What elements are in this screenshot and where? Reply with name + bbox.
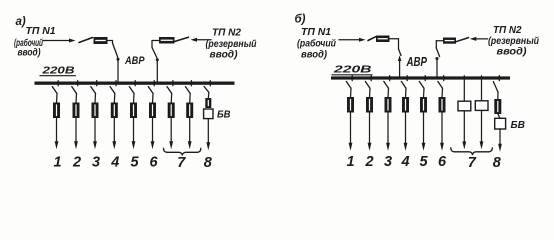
svg-text:АВР: АВР	[124, 55, 145, 67]
svg-text:5: 5	[419, 154, 428, 170]
feeder 1 switch (b)	[346, 76, 352, 98]
svg-text:2: 2	[72, 155, 81, 171]
svg-text:ввод): ввод)	[210, 50, 239, 61]
wire TP1 feed arrow	[43, 39, 76, 43]
wire feeder 8 drop (b)	[498, 129, 502, 152]
wire feeder drop (b)	[422, 112, 426, 151]
svg-text:ТП N1: ТП N1	[26, 26, 56, 37]
feeder 8 switch	[204, 81, 210, 99]
wire feeder drop	[169, 118, 173, 150]
wire feeder drop (b)	[349, 112, 353, 151]
feeder 6 switch	[148, 81, 154, 103]
feeder fuse F2 (b)	[367, 98, 373, 113]
feeder 8 fuse	[206, 99, 211, 108]
wire TP2 feed arrow (b)	[470, 37, 488, 41]
feeder 8 fuse (b)	[495, 100, 501, 114]
svg-text:(резервный: (резервный	[206, 39, 257, 50]
wire FU1 to AVR contact (b)	[389, 39, 399, 49]
svg-text:БВ: БВ	[217, 109, 231, 121]
svg-text:220В: 220В	[333, 64, 373, 76]
wire feeder drop (b)	[404, 112, 408, 151]
feeder 2 switch (b)	[365, 76, 371, 98]
svg-text:3: 3	[384, 154, 392, 170]
svg-text:АВР: АВР	[406, 55, 428, 69]
feeder 6 switch (b)	[438, 76, 444, 98]
wire AVR left to bus (b)	[399, 61, 401, 77]
svg-text:4: 4	[110, 155, 119, 171]
svg-text:2: 2	[364, 154, 373, 170]
svg-text:4: 4	[400, 154, 409, 170]
wire feeder drop	[132, 118, 136, 150]
bus bar 220V (b)	[331, 76, 510, 79]
svg-text:6: 6	[438, 154, 447, 170]
feeder 2 switch	[72, 81, 78, 103]
svg-text:ввод): ввод)	[18, 48, 42, 59]
breaker BV square	[204, 109, 213, 119]
wire fuse to BV (b)	[498, 114, 500, 119]
svg-text:1: 1	[346, 154, 354, 170]
svg-text:7: 7	[468, 155, 477, 171]
node TP1 label	[14, 26, 56, 59]
wire feeder drop	[112, 118, 116, 150]
net 220V label (b)	[332, 64, 372, 76]
feeder fuse F8	[187, 103, 193, 118]
feeder 7a contactor wire (b)	[463, 76, 465, 101]
svg-text:ТП N2: ТП N2	[493, 25, 522, 36]
wire feeder drop (b)	[368, 112, 372, 151]
node TP2 label (b)	[488, 25, 539, 58]
switch blade QS2 (b)	[456, 38, 469, 42]
contactor 7b (b)	[475, 101, 488, 111]
fuse FU1	[94, 38, 107, 44]
svg-text:ввод): ввод)	[301, 50, 328, 61]
feeder fuse F7	[168, 103, 174, 118]
feeder fuse F3 (b)	[385, 98, 391, 113]
wire AVR left to bus	[117, 59, 119, 82]
feeder fuse F4 (b)	[403, 98, 409, 113]
feeder fuse F2	[73, 103, 79, 118]
wire feeder drop (b)	[386, 112, 390, 151]
fuse FU2 (b)	[444, 38, 456, 43]
feeder fuse F6	[150, 103, 156, 118]
fuse FU1 (b)	[377, 36, 390, 42]
wire AVR right to bus (b)	[436, 59, 438, 77]
wire TP1 feed arrow (b)	[339, 38, 366, 42]
svg-text:5: 5	[130, 155, 139, 171]
svg-text:ТП N1: ТП N1	[301, 27, 331, 38]
bracket group 7 (b)	[451, 148, 493, 155]
breaker BV square (b)	[495, 118, 506, 129]
feeder fuse F4	[111, 103, 117, 118]
svg-text:б): б)	[295, 14, 306, 26]
feeder 5 switch (b)	[419, 76, 425, 98]
wire feeder drop	[74, 118, 78, 150]
wire FU1 to AVR contact	[107, 41, 113, 44]
feeder 5 switch	[129, 81, 135, 103]
wire feeder drop	[55, 118, 59, 150]
switch blade QS2	[175, 37, 189, 41]
wire feeder drop	[151, 118, 155, 150]
svg-text:1: 1	[53, 155, 61, 171]
wire AVR right to bus	[156, 60, 158, 83]
svg-text:3: 3	[92, 155, 100, 171]
feeder 7b contactor wire (b)	[481, 76, 483, 101]
feeder fuse F5	[131, 103, 137, 118]
node TP1 label (b)	[297, 27, 336, 61]
svg-text:8: 8	[493, 155, 502, 171]
svg-text:220В: 220В	[41, 65, 75, 77]
net 220V label	[40, 65, 76, 77]
feeder 3 switch	[91, 81, 97, 103]
svg-text:8: 8	[204, 155, 213, 171]
switch blade QS1 (b)	[368, 36, 377, 40]
wire TP2 feed arrow	[191, 38, 212, 42]
feeder 3 switch (b)	[384, 76, 390, 98]
feeder 4 switch	[110, 81, 116, 103]
feeder 7b switch	[186, 81, 192, 103]
wire feeder drop	[93, 118, 97, 150]
svg-text:6: 6	[149, 155, 158, 171]
feeder fuse F1	[54, 103, 60, 118]
wire feeder 8 drop	[206, 119, 210, 151]
AVR contact left (blade + dot)	[113, 43, 120, 61]
wire TP2 horizontal to corner	[152, 41, 160, 48]
AVR contact right (blade + dot)	[152, 48, 159, 62]
wire TP2 horizontal to corner (b)	[436, 41, 443, 48]
bus bar 220V	[35, 82, 235, 85]
feeder 4 switch (b)	[401, 76, 407, 98]
svg-text:ввод): ввод)	[497, 47, 528, 58]
bracket group 7	[164, 148, 201, 155]
wire feeder 7b drop (b)	[480, 110, 484, 149]
svg-text:(рабочий: (рабочий	[297, 38, 336, 50]
svg-text:(резервный: (резервный	[488, 36, 539, 47]
svg-text:ТП N2: ТП N2	[212, 28, 241, 39]
feeder fuse F1 (b)	[348, 98, 354, 113]
feeder 8 switch (b)	[493, 76, 499, 100]
feeder fuse F5 (b)	[421, 98, 427, 113]
wire feeder drop (b)	[440, 112, 444, 151]
wire feeder drop	[188, 118, 192, 150]
feeder fuse F3	[92, 103, 98, 118]
feeder 7a switch	[167, 81, 173, 103]
switch blade QS1	[79, 38, 93, 43]
feeder fuse F6 (b)	[439, 98, 445, 113]
wire feeder 7a drop (b)	[462, 111, 466, 150]
svg-text:7: 7	[177, 155, 186, 171]
node TP2 label	[206, 28, 257, 61]
svg-text:а): а)	[16, 16, 26, 28]
AVR contact right (b)	[436, 48, 440, 60]
svg-text:БВ: БВ	[511, 119, 526, 131]
AVR contact left (b)	[398, 49, 402, 61]
feeder 1 switch	[52, 81, 58, 103]
contactor 7a (b)	[458, 101, 471, 111]
fuse FU2	[160, 38, 175, 44]
